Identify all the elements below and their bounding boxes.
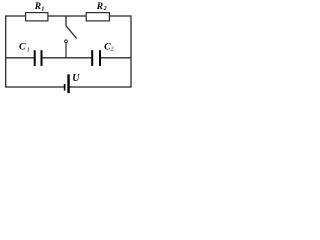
white gap over bottom wire between battery plates [66, 86, 68, 88]
switch S: top stub [65, 16, 67, 26]
battery U: long plate [67, 74, 69, 93]
wire middle center [42, 57, 91, 59]
battery U: short plate [64, 84, 66, 91]
svg-text:R: R [96, 2, 103, 12]
svg-text:2: 2 [111, 47, 114, 53]
wire middle right [101, 57, 132, 59]
svg-text:1: 1 [41, 6, 44, 12]
svg-text:U: U [72, 73, 80, 84]
switch S: bottom stub [65, 43, 67, 58]
wire outer loop [6, 16, 131, 87]
capacitor C1 right plate [41, 50, 43, 66]
wire middle left [5, 57, 34, 59]
capacitor C2 right plate [99, 50, 101, 66]
resistor R1 [26, 13, 48, 21]
svg-text:1: 1 [27, 47, 30, 53]
switch S: blade [66, 26, 77, 39]
svg-text:R: R [34, 2, 41, 12]
svg-text:2: 2 [103, 6, 107, 12]
resistor R2 [86, 13, 109, 21]
svg-text:C: C [19, 42, 26, 53]
capacitor C2 left plate [91, 50, 93, 66]
switch S: contact circle [65, 40, 68, 43]
capacitor C1 left plate [34, 50, 36, 66]
